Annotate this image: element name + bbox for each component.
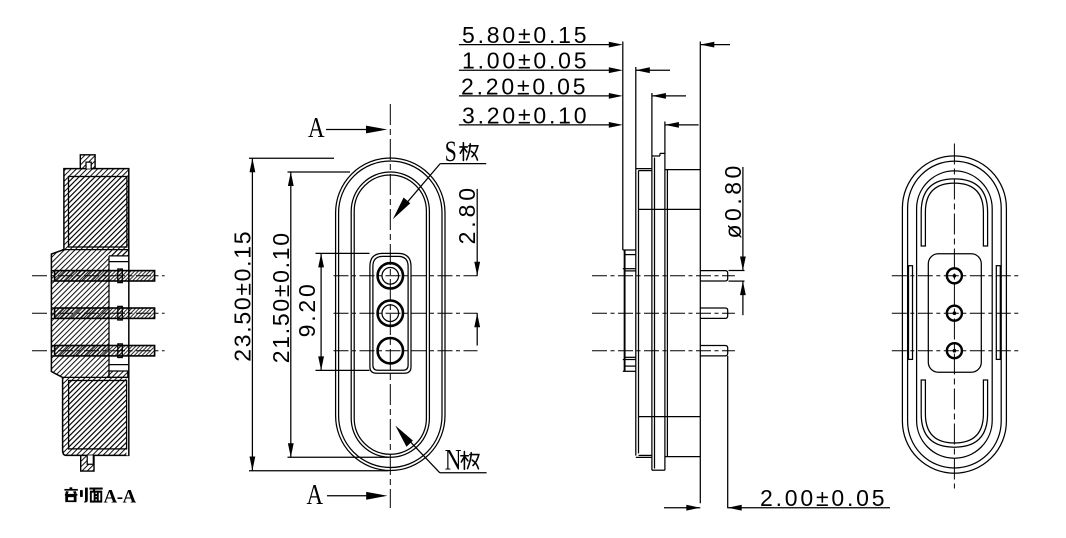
side extension line left face — [622, 42, 624, 251]
section top tab hatched — [80, 155, 95, 169]
back bottom arch band — [921, 380, 987, 447]
side housing column left outer — [651, 93, 653, 470]
section pin row2 collar — [118, 306, 123, 320]
side pin row2 — [700, 308, 727, 318]
front inner obround inner line — [354, 175, 426, 454]
back housing rect — [928, 254, 981, 372]
svg-text:1.00±0.05: 1.00±0.05 — [462, 48, 589, 74]
back pin1 circle — [947, 268, 962, 283]
dimension 9.20 line — [320, 253, 322, 370]
section top block bottom edge — [62, 249, 128, 251]
dimension dia0.80 extension bottom — [729, 280, 745, 282]
dimension 2.20 leader underline — [459, 95, 609, 97]
svg-text:A: A — [307, 478, 324, 510]
dimension 2.80 line lower — [476, 313, 478, 345]
section body silhouette hatched — [51, 169, 128, 456]
dimension dia0.80 line upper — [742, 167, 744, 271]
back outer obround — [902, 156, 1006, 473]
back middle obround — [908, 161, 1002, 468]
section pin row2 bar hatched — [55, 308, 155, 318]
section pin column left edge — [108, 256, 110, 378]
svg-text:2.00±0.05: 2.00±0.05 — [760, 485, 887, 511]
side shell top edge right — [665, 169, 700, 171]
svg-text:A: A — [308, 111, 325, 143]
dimension 2.00 arrow left — [664, 507, 700, 509]
svg-text:9.20: 9.20 — [294, 281, 320, 337]
side pin row1 — [700, 271, 727, 281]
section hatched sliver above bottom block — [109, 371, 128, 377]
svg-text:N: N — [445, 443, 462, 476]
side boss top edge — [623, 249, 636, 251]
side body right face — [699, 42, 701, 504]
section pin column top edge — [109, 255, 128, 257]
front outer obround inner line — [339, 161, 442, 468]
back inner obround — [917, 171, 993, 458]
N pole leader — [399, 430, 440, 473]
side pin tip extension — [727, 356, 729, 508]
side pin row3 — [700, 346, 727, 356]
side housing column left inner — [654, 158, 656, 469]
dimension 3.20 leader underline — [459, 124, 609, 126]
section pin row1 bar hatched — [55, 271, 155, 281]
svg-text:3.20±0.10: 3.20±0.10 — [462, 102, 589, 128]
side centerline row2 — [592, 312, 735, 314]
front pin2 inner ring — [382, 305, 399, 322]
cut arrow A bottom — [327, 495, 370, 497]
side shell top edge left — [636, 168, 652, 170]
back pin2 circle — [947, 306, 962, 321]
front outer obround — [336, 158, 445, 471]
section pin row1 collar — [118, 269, 123, 283]
svg-text:21.50±0.10: 21.50±0.10 — [268, 231, 294, 363]
front housing outer — [370, 253, 411, 373]
dimension 23.50±0.15 line — [251, 158, 253, 470]
dimension 5.80 leader underline — [459, 44, 609, 46]
hanzi 面 — [89, 489, 102, 502]
back centerline row2 — [892, 312, 1021, 314]
side boss bar above row1 — [623, 268, 636, 270]
section white pin column — [109, 256, 128, 378]
back centerline row3 — [892, 350, 1021, 352]
section pin column divider bottom — [109, 364, 128, 366]
section magnet top inner rect hatched — [69, 177, 127, 248]
dimension 21.50 extension bottom — [288, 456, 389, 458]
back centerline row1 — [892, 275, 1021, 277]
front vertical centerline — [389, 104, 391, 508]
svg-text:2.80: 2.80 — [454, 184, 480, 244]
section centerline row2 — [32, 312, 165, 314]
dimension dia0.80 line lower — [742, 281, 744, 315]
svg-text:5.80±0.15: 5.80±0.15 — [462, 22, 589, 48]
section centerline row3 — [32, 350, 165, 352]
front inner obround — [351, 172, 429, 457]
section magnet bottom inner rect hatched — [69, 381, 127, 449]
section shell notch lines at pin rows — [51, 270, 54, 272]
side centerline row1 — [592, 275, 735, 277]
section pin row3 collar — [118, 344, 123, 358]
section hatched sliver below top block — [109, 250, 128, 256]
section centerline row1 — [32, 275, 165, 277]
side boss bar below row3 — [625, 356, 636, 358]
dimension 2.20 right arrow — [652, 95, 686, 97]
front pin1 outer ring — [378, 263, 403, 288]
hanzi 剖 — [64, 487, 86, 501]
front centerline row1 — [334, 275, 478, 277]
back right slot — [996, 266, 1000, 360]
dimension 1.00 leader underline — [459, 69, 609, 71]
front pin1 inner ring — [382, 268, 399, 285]
dimension 23.50 extension bottom — [249, 470, 389, 472]
hanzi 极 after N — [461, 451, 479, 469]
side shell top inner edge left — [639, 170, 652, 172]
svg-text:A-A: A-A — [104, 487, 137, 508]
side shell bottom edge right — [665, 456, 700, 458]
front pin3 ring — [378, 338, 403, 363]
front centerline row2 — [334, 312, 478, 314]
cut arrow A top — [326, 129, 369, 131]
section top tab notch — [86, 162, 91, 169]
side shell bottom edge left — [636, 456, 652, 458]
front housing inner line — [373, 256, 408, 370]
section pin column divider top — [109, 261, 128, 263]
dimension 5.80 right arrow — [700, 44, 730, 46]
back pin3 circle — [947, 343, 962, 358]
side inner horizontal lower — [639, 416, 701, 418]
section bottom block top edge — [63, 376, 128, 378]
dimension dia0.80 extension top — [729, 270, 745, 272]
hanzi 极 after S — [460, 143, 478, 161]
side shell bottom inner edge left — [639, 454, 652, 456]
side shell front outer line — [635, 67, 637, 456]
side inner horizontal upper — [639, 208, 701, 210]
back left slot — [909, 266, 913, 360]
dimension 2.80 line upper — [476, 189, 478, 276]
side centerline row3 — [592, 350, 735, 352]
side tab bottom edge — [652, 469, 665, 471]
side housing column right inner — [666, 170, 668, 457]
side housing column right outer — [664, 122, 666, 471]
section pin row3 bar hatched — [55, 346, 155, 356]
side shell front inner line — [638, 171, 640, 454]
side boss top inner edge — [625, 254, 636, 256]
back top arch band — [921, 179, 987, 246]
side tab top edge — [652, 155, 660, 157]
section bottom tab hatched — [81, 455, 94, 471]
dimension 21.50 extension top — [288, 171, 351, 173]
svg-text:ø0.80: ø0.80 — [720, 162, 746, 238]
svg-text:2.20±0.05: 2.20±0.05 — [461, 73, 588, 99]
back vertical centerline — [953, 144, 955, 489]
side boss front face thick — [624, 250, 626, 371]
side boss bottom edge — [623, 370, 636, 372]
section bottom tab notch — [87, 455, 93, 464]
dimension 3.20 right arrow — [665, 124, 699, 126]
side tab top notch — [660, 152, 665, 154]
dimension 23.50 extension top — [249, 157, 334, 159]
section right face line — [128, 169, 130, 456]
svg-text:23.50±0.15: 23.50±0.15 — [230, 230, 256, 362]
dimension 1.00 right arrow — [636, 69, 670, 71]
dimension 9.20 extension top — [316, 252, 370, 254]
dimension 9.20 extension bottom — [316, 369, 370, 371]
dimension 21.50±0.10 line — [290, 172, 292, 457]
side boss bottom inner edge — [625, 365, 636, 367]
S pole leader — [396, 164, 440, 216]
dimension 2.00 line and underline — [728, 507, 890, 509]
front pin2 outer ring — [378, 301, 403, 326]
front centerline row3 — [334, 350, 478, 352]
svg-text:S: S — [445, 135, 457, 168]
